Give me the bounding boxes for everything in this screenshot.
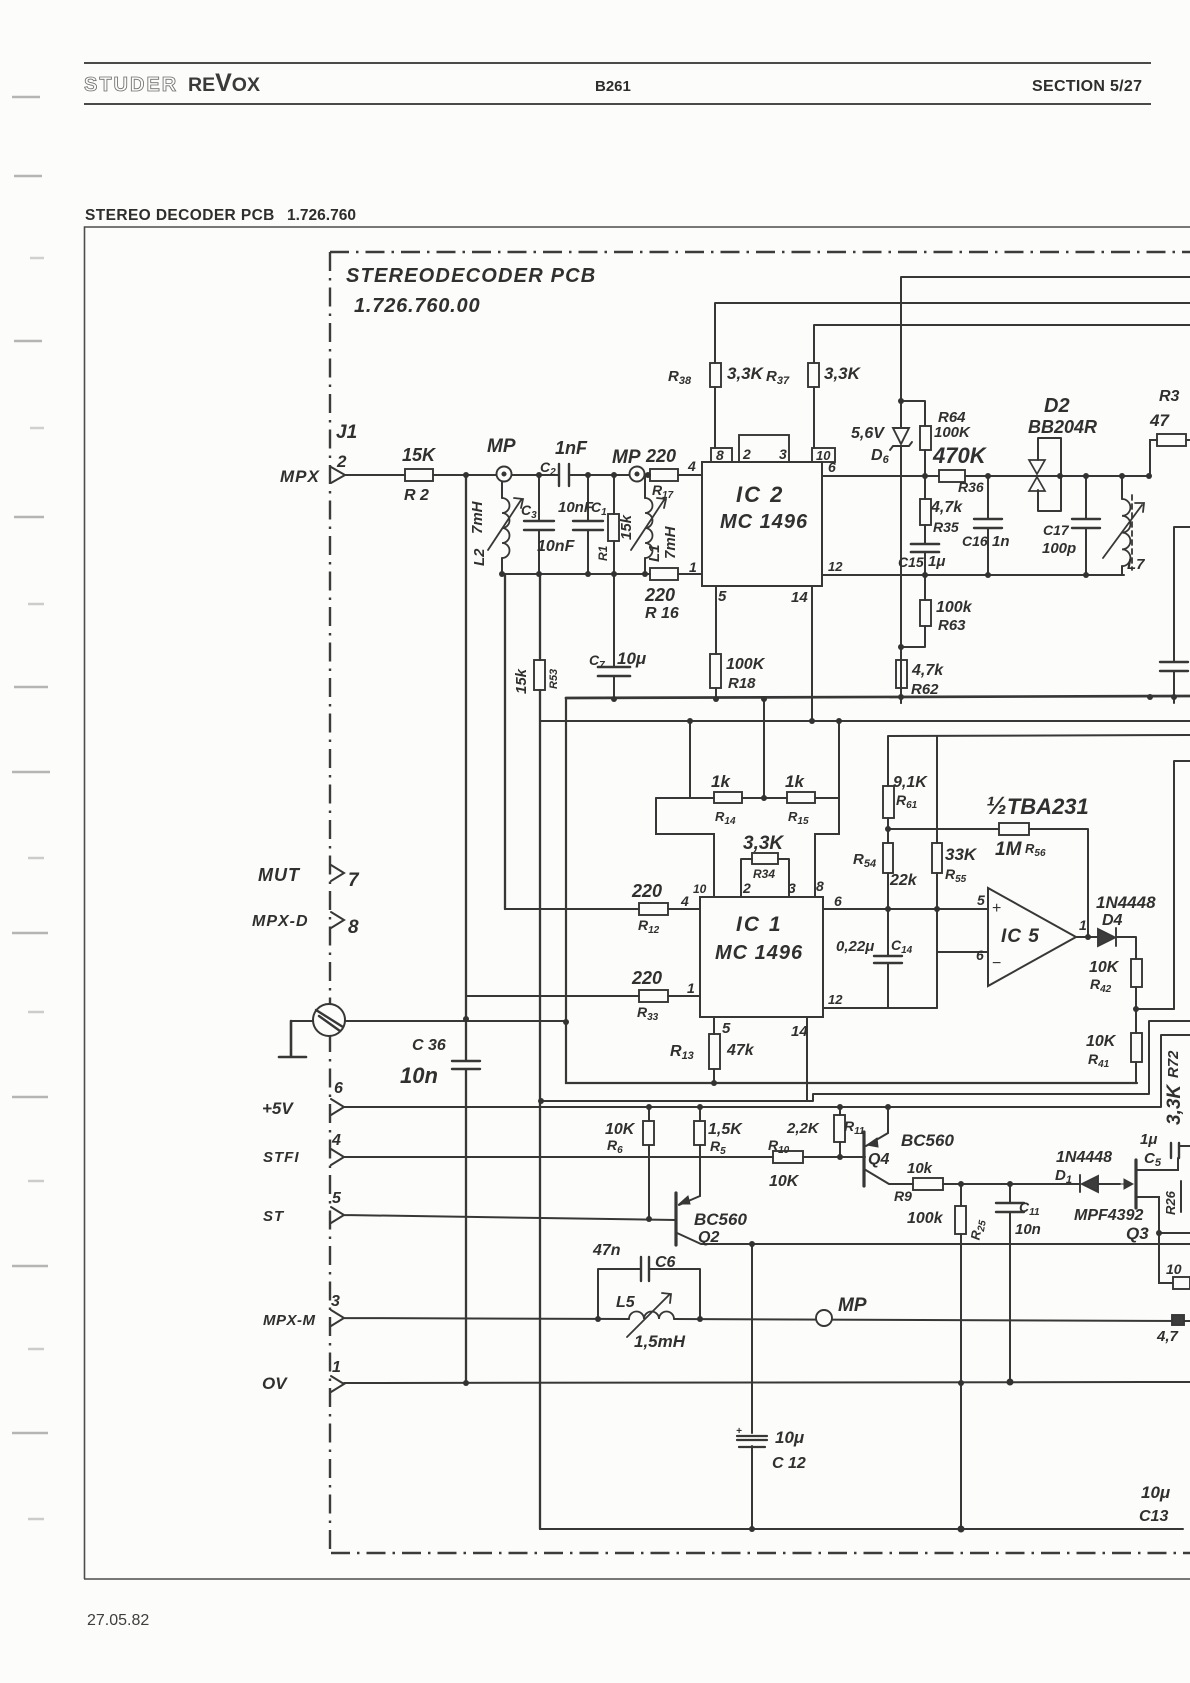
svg-text:1: 1 [689, 559, 697, 575]
svg-text:8: 8 [816, 878, 824, 894]
svg-text:4: 4 [687, 458, 696, 474]
svg-text:R34: R34 [753, 867, 775, 881]
svg-text:C17: C17 [1043, 522, 1070, 538]
svg-text:7mH: 7mH [662, 525, 679, 559]
svg-text:220: 220 [644, 585, 675, 605]
svg-text:220: 220 [631, 968, 662, 988]
svg-text:D4: D4 [1102, 912, 1123, 929]
svg-text:3,3K: 3,3K [1164, 1084, 1185, 1125]
svg-text:1,5mH: 1,5mH [634, 1332, 686, 1351]
svg-text:470K: 470K [932, 443, 988, 468]
svg-text:2,2K: 2,2K [786, 1120, 820, 1137]
svg-text:C13: C13 [1139, 1508, 1168, 1525]
svg-text:1.726.760.00: 1.726.760.00 [354, 295, 480, 317]
svg-text:8: 8 [348, 917, 359, 938]
svg-text:1N4448: 1N4448 [1056, 1149, 1112, 1166]
svg-text:10n: 10n [1015, 1221, 1041, 1238]
svg-text:3,3K: 3,3K [743, 833, 784, 854]
svg-text:5,6V: 5,6V [851, 425, 885, 442]
svg-text:C5: C5 [1144, 1150, 1162, 1169]
svg-text:R25: R25 [968, 1218, 989, 1242]
svg-text:Q2: Q2 [698, 1229, 719, 1246]
svg-text:MP: MP [838, 1295, 867, 1316]
svg-text:7: 7 [348, 870, 360, 891]
svg-text:4: 4 [331, 1132, 341, 1149]
svg-text:MC 1496: MC 1496 [720, 511, 808, 533]
svg-text:R41: R41 [1088, 1051, 1110, 1070]
svg-text:MPX: MPX [280, 467, 321, 486]
svg-text:Q3: Q3 [1126, 1224, 1149, 1243]
svg-text:C6: C6 [655, 1254, 676, 1271]
svg-text:IC 2: IC 2 [736, 482, 784, 507]
svg-text:STUDER: STUDER [84, 74, 178, 96]
svg-text:1: 1 [687, 980, 695, 996]
svg-text:+: + [992, 900, 1001, 917]
svg-text:C7: C7 [589, 652, 605, 671]
svg-text:R3: R3 [1159, 388, 1180, 405]
svg-text:2: 2 [742, 880, 751, 896]
svg-text:5: 5 [718, 588, 727, 605]
svg-text:1μ: 1μ [1140, 1131, 1157, 1148]
svg-text:10μ: 10μ [617, 649, 647, 668]
svg-text:L2: L2 [471, 548, 488, 566]
svg-text:B261: B261 [595, 78, 631, 95]
svg-text:R12: R12 [638, 917, 660, 936]
svg-text:R11: R11 [844, 1118, 865, 1137]
svg-text:C 36: C 36 [412, 1037, 446, 1054]
svg-text:C16: C16 [962, 533, 988, 549]
svg-text:10μ: 10μ [775, 1428, 805, 1447]
svg-text:12: 12 [828, 992, 843, 1007]
svg-text:22k: 22k [889, 872, 918, 889]
svg-text:REVOX: REVOX [188, 69, 260, 97]
svg-text:MP: MP [612, 447, 641, 468]
svg-text:L5: L5 [616, 1294, 636, 1311]
svg-text:10K: 10K [605, 1121, 636, 1138]
svg-text:10K: 10K [769, 1173, 800, 1190]
svg-text:MPX-D: MPX-D [252, 913, 309, 930]
svg-text:MPF4392: MPF4392 [1074, 1207, 1143, 1224]
svg-text:R33: R33 [637, 1004, 659, 1023]
svg-text:R35: R35 [933, 519, 959, 535]
svg-text:100p: 100p [1042, 540, 1076, 557]
svg-text:5: 5 [332, 1190, 342, 1207]
svg-text:10μ: 10μ [1141, 1483, 1171, 1502]
svg-text:3: 3 [788, 880, 796, 896]
svg-text:R37: R37 [766, 368, 790, 387]
svg-text:1k: 1k [785, 772, 805, 791]
svg-text:MPX-M: MPX-M [263, 1312, 316, 1329]
svg-text:R6: R6 [607, 1137, 623, 1156]
svg-text:½TBA231: ½TBA231 [986, 792, 1089, 820]
svg-text:2: 2 [742, 446, 751, 462]
svg-text:D6: D6 [871, 447, 890, 466]
svg-text:5: 5 [722, 1020, 731, 1037]
svg-text:MUT: MUT [258, 865, 301, 885]
svg-text:1N4448: 1N4448 [1096, 893, 1156, 912]
svg-text:6: 6 [334, 1080, 343, 1097]
svg-text:1nF: 1nF [555, 438, 588, 458]
svg-text:6: 6 [834, 893, 842, 909]
svg-text:3: 3 [331, 1293, 340, 1310]
svg-text:10K: 10K [1086, 1033, 1117, 1050]
svg-text:ST: ST [263, 1208, 285, 1225]
svg-text:R55: R55 [945, 866, 967, 885]
svg-text:33K: 33K [945, 845, 978, 864]
svg-text:10: 10 [693, 882, 707, 896]
svg-text:R63: R63 [938, 617, 966, 634]
svg-text:BC560: BC560 [694, 1210, 747, 1229]
svg-text:15K: 15K [402, 445, 437, 465]
svg-text:R53: R53 [548, 669, 560, 689]
svg-text:10nF: 10nF [537, 538, 576, 555]
svg-text:R 2: R 2 [404, 487, 429, 504]
svg-text:−: − [992, 955, 1001, 972]
svg-text:7mH: 7mH [469, 500, 486, 534]
svg-text:SECTION 5/27: SECTION 5/27 [1032, 78, 1142, 95]
svg-text:3: 3 [779, 446, 787, 462]
svg-text:BC560: BC560 [901, 1131, 954, 1150]
svg-text:3,3K: 3,3K [824, 364, 862, 383]
svg-text:R72: R72 [1165, 1050, 1182, 1078]
svg-text:IC 5: IC 5 [1001, 926, 1040, 947]
svg-text:1.726.760: 1.726.760 [287, 207, 356, 224]
svg-text:8: 8 [716, 447, 724, 463]
svg-text:100K: 100K [726, 656, 766, 673]
svg-text:C 12: C 12 [772, 1455, 806, 1472]
svg-text:L7: L7 [1127, 556, 1145, 573]
svg-text:R18: R18 [728, 675, 756, 692]
svg-text:220: 220 [631, 881, 662, 901]
svg-text:C15: C15 [898, 554, 924, 570]
svg-text:1M: 1M [995, 839, 1023, 860]
svg-text:2: 2 [336, 452, 347, 471]
svg-text:R36: R36 [958, 479, 984, 495]
svg-text:R9: R9 [894, 1188, 912, 1204]
svg-text:47k: 47k [726, 1042, 755, 1059]
svg-text:4,7k: 4,7k [930, 499, 963, 516]
svg-text:3,3K: 3,3K [727, 364, 765, 383]
svg-text:OV: OV [262, 1374, 288, 1393]
svg-text:1: 1 [332, 1359, 341, 1376]
svg-text:1,5K: 1,5K [708, 1121, 743, 1138]
svg-text:L1: L1 [646, 544, 663, 562]
svg-text:0,22μ: 0,22μ [836, 938, 874, 955]
svg-text:9,1K: 9,1K [893, 774, 928, 791]
svg-text:C14: C14 [891, 937, 913, 956]
svg-text:15k: 15k [618, 514, 635, 540]
svg-text:14: 14 [791, 1023, 808, 1040]
svg-text:10n: 10n [400, 1063, 438, 1088]
svg-text:1k: 1k [711, 772, 731, 791]
svg-text:R26: R26 [1163, 1190, 1178, 1215]
svg-text:D1: D1 [1055, 1167, 1072, 1186]
svg-text:+5V: +5V [262, 1099, 294, 1118]
svg-text:C11: C11 [1019, 1199, 1040, 1218]
svg-text:4,7: 4,7 [1156, 1328, 1179, 1345]
svg-text:R61: R61 [896, 792, 918, 811]
svg-text:MP: MP [487, 436, 516, 457]
svg-text:R56: R56 [1025, 841, 1046, 859]
svg-text:IC 1: IC 1 [736, 913, 783, 936]
svg-text:BB204R: BB204R [1028, 417, 1097, 437]
svg-text:10K: 10K [1089, 959, 1120, 976]
svg-text:10k: 10k [907, 1160, 933, 1177]
svg-text:220: 220 [645, 446, 676, 466]
svg-text:12: 12 [828, 559, 843, 574]
svg-text:14: 14 [791, 589, 808, 606]
svg-text:27.05.82: 27.05.82 [87, 1612, 149, 1629]
svg-text:4,7k: 4,7k [911, 662, 944, 679]
svg-text:R38: R38 [668, 368, 692, 387]
svg-text:1: 1 [1079, 917, 1087, 933]
svg-text:R5: R5 [710, 1138, 726, 1157]
svg-text:R1: R1 [596, 545, 610, 561]
svg-text:STFI: STFI [263, 1149, 300, 1166]
svg-text:R54: R54 [853, 851, 876, 870]
svg-text:C3: C3 [521, 502, 537, 521]
svg-text:6: 6 [976, 947, 984, 963]
svg-text:47: 47 [1149, 411, 1170, 430]
svg-text:+: + [736, 1426, 742, 1437]
svg-text:4: 4 [680, 893, 689, 909]
svg-text:R15: R15 [788, 809, 809, 827]
svg-text:R17: R17 [652, 482, 674, 501]
svg-text:D2: D2 [1044, 395, 1070, 417]
svg-text:R14: R14 [715, 809, 736, 827]
svg-text:15k: 15k [513, 668, 530, 694]
svg-text:100k: 100k [907, 1210, 944, 1227]
svg-text:10nF: 10nF [558, 499, 594, 516]
svg-text:R62: R62 [911, 681, 939, 698]
svg-text:R13: R13 [670, 1043, 694, 1062]
svg-text:R 16: R 16 [645, 605, 679, 622]
svg-text:10: 10 [1166, 1261, 1182, 1277]
svg-text:100k: 100k [936, 599, 973, 616]
svg-text:1n: 1n [992, 533, 1010, 550]
svg-text:47n: 47n [592, 1242, 621, 1259]
svg-text:STEREO DECODER PCB: STEREO DECODER PCB [85, 207, 275, 224]
svg-text:STEREODECODER PCB: STEREODECODER PCB [346, 265, 596, 287]
svg-text:100K: 100K [934, 424, 971, 441]
svg-text:1μ: 1μ [928, 553, 945, 570]
svg-text:R10: R10 [768, 1137, 790, 1156]
svg-text:Q4: Q4 [868, 1151, 889, 1168]
svg-text:MC 1496: MC 1496 [715, 942, 803, 964]
svg-text:C1: C1 [591, 499, 607, 518]
svg-text:J1: J1 [336, 422, 357, 443]
svg-text:6: 6 [828, 459, 836, 475]
svg-text:R42: R42 [1090, 976, 1112, 995]
svg-text:5: 5 [977, 892, 985, 908]
